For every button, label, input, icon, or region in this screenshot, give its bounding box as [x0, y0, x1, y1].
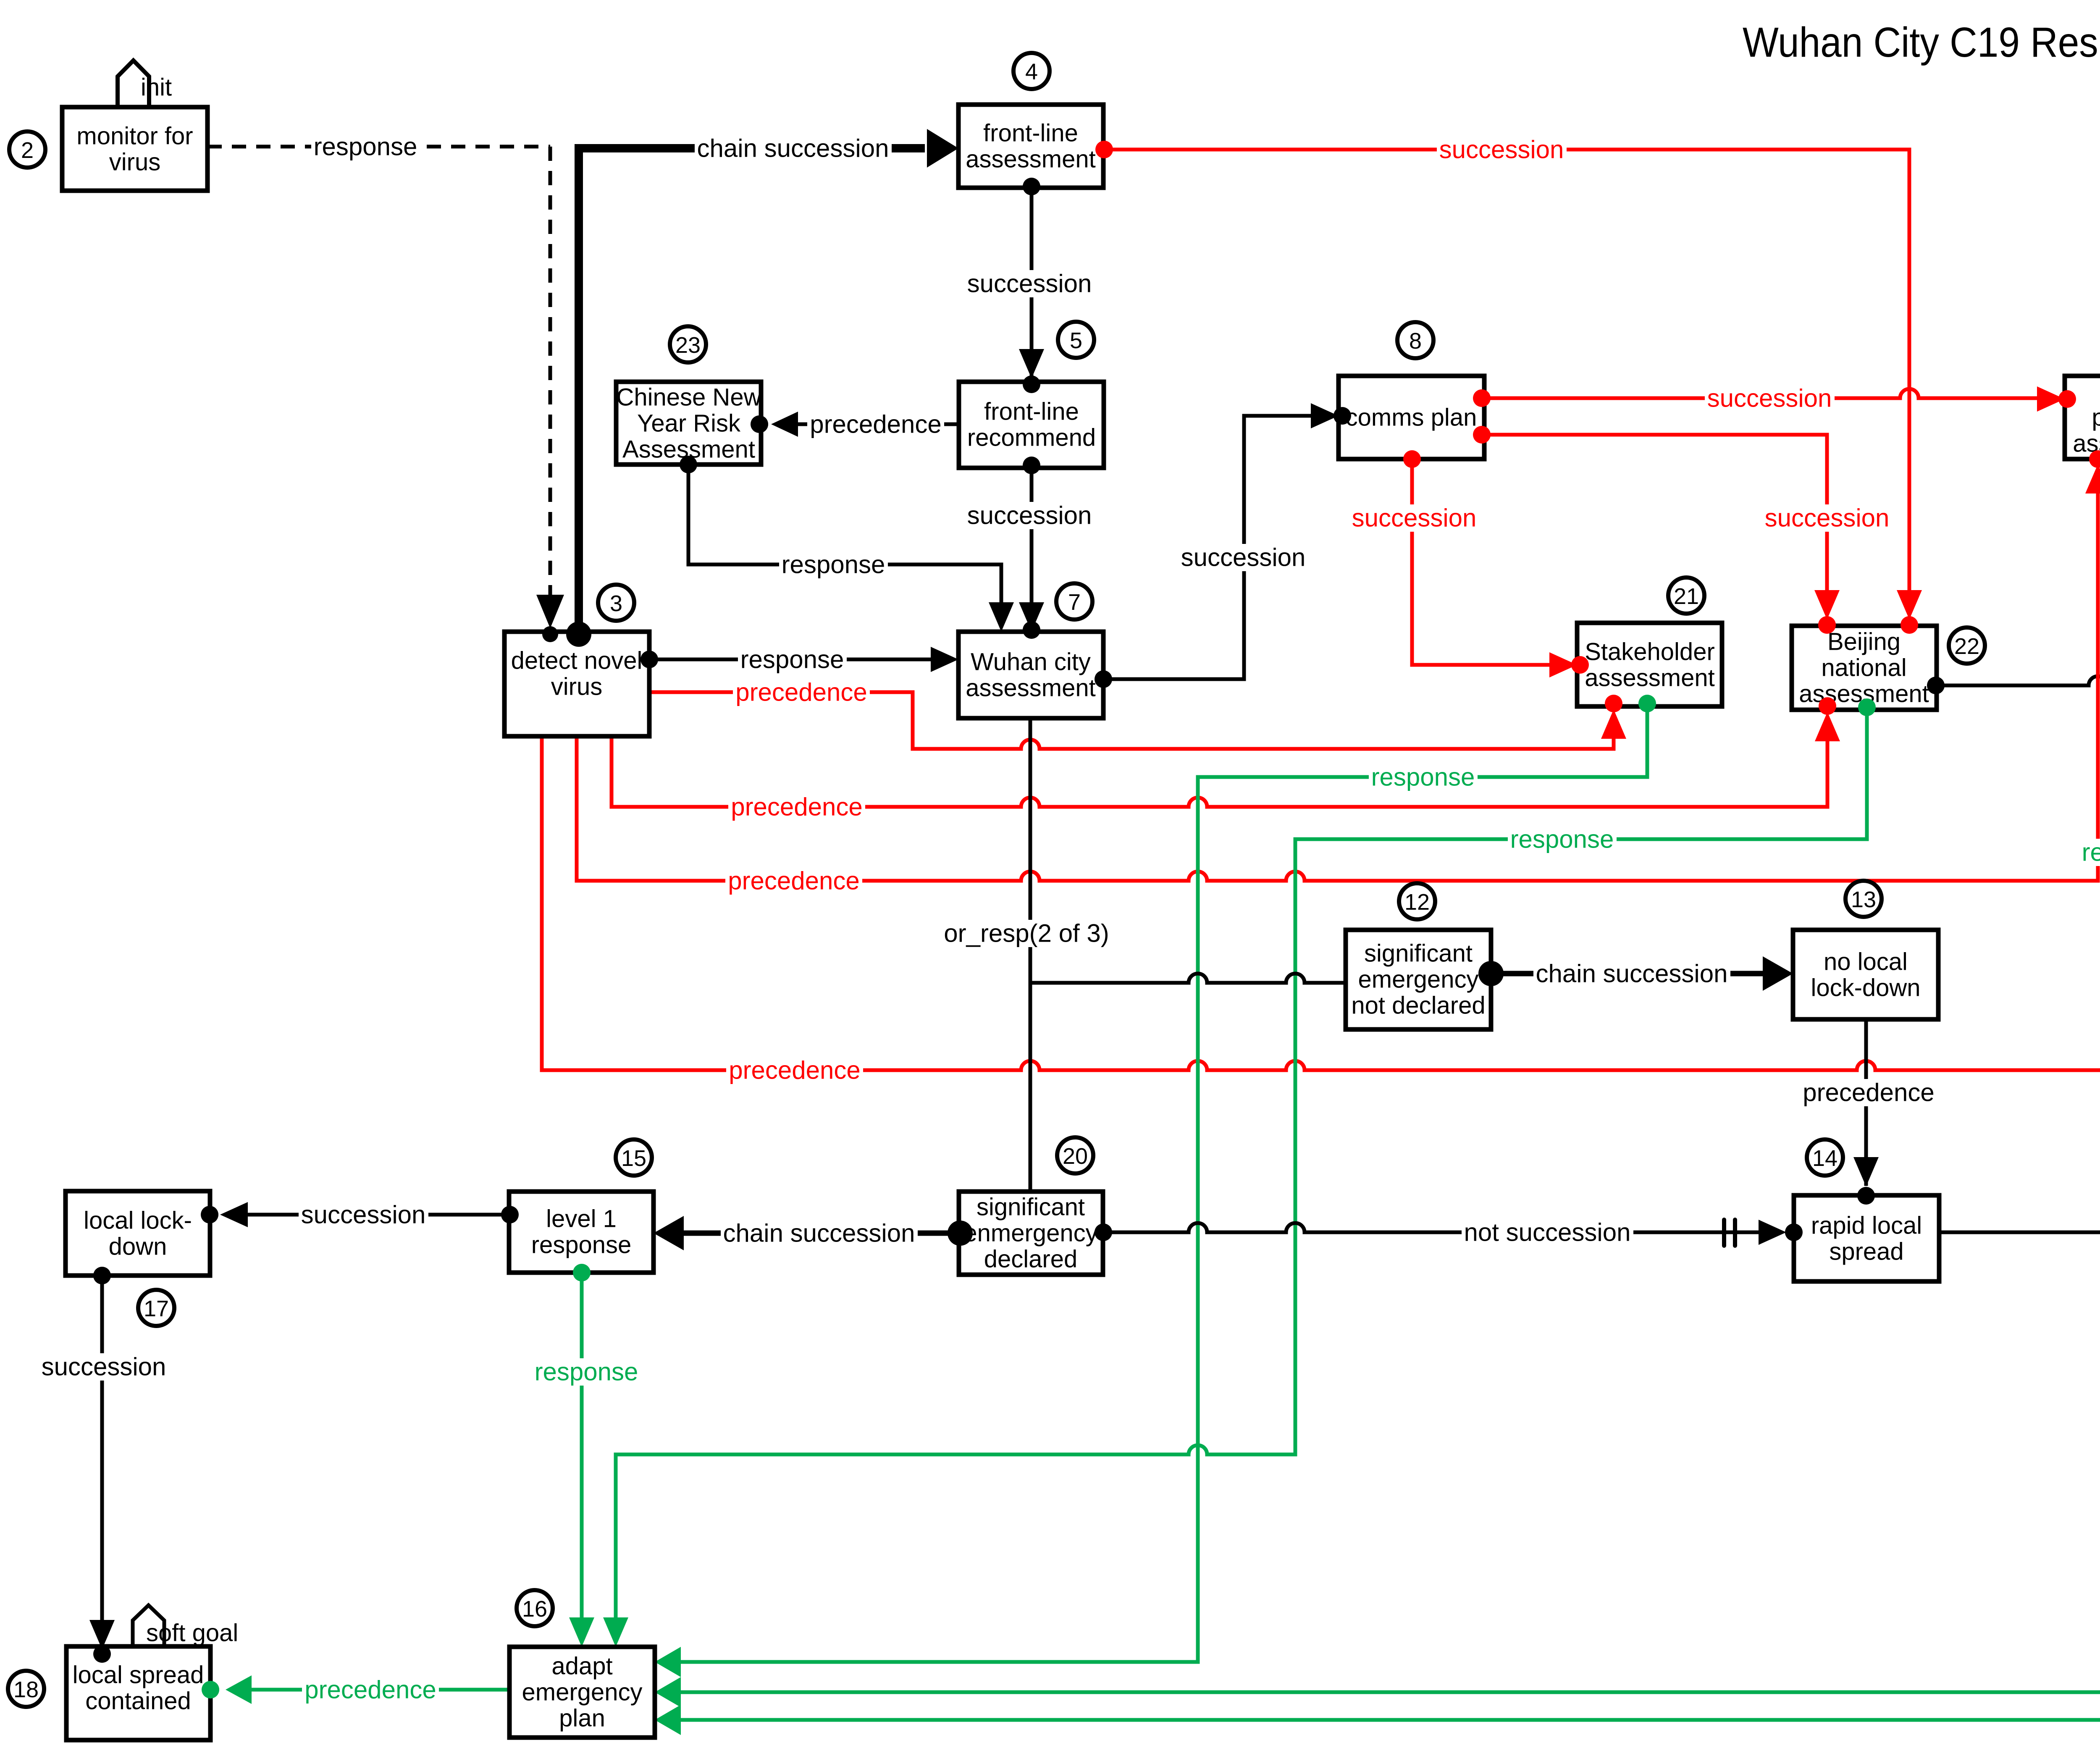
- svg-text:succession: succession: [967, 270, 1092, 298]
- node 20 significant enmergency declared: [959, 1192, 1103, 1275]
- svg-text:precedence: precedence: [735, 678, 867, 706]
- node 15 level 1 response: [509, 1192, 654, 1273]
- node 12 significant emergency not declared: [1346, 930, 1491, 1029]
- node 4 front-line assessment: [958, 105, 1103, 188]
- label or_resp(2 of 3): [941, 920, 1111, 947]
- svg-text:local spread: local spread: [73, 1662, 204, 1689]
- circled 20: [1057, 1137, 1093, 1173]
- svg-text:8: 8: [1409, 328, 1422, 354]
- label precedence red R1: [733, 679, 870, 706]
- label succession red (comms->hubei): [1705, 385, 1835, 412]
- svg-text:15: 15: [621, 1146, 646, 1171]
- svg-text:precedence: precedence: [304, 1676, 436, 1704]
- svg-text:precedence: precedence: [731, 793, 863, 821]
- svg-text:succession: succession: [42, 1353, 166, 1381]
- svg-text:16: 16: [522, 1596, 547, 1622]
- label succession (wuhan->comms plan): [1179, 544, 1308, 571]
- svg-text:Chinese New: Chinese New: [617, 384, 762, 411]
- wire chain-succession detect-novel-virus to front-line-assessment (thick): [575, 148, 583, 634]
- svg-text:front-line: front-line: [983, 120, 1078, 147]
- svg-text:rapid local: rapid local: [1811, 1212, 1922, 1239]
- svg-text:spread: spread: [1829, 1238, 1903, 1265]
- wire precedence(red) detect-novel-virus to stakeholder-assessment: [649, 690, 913, 694]
- circled 12: [1399, 883, 1435, 919]
- svg-text:3: 3: [610, 591, 622, 616]
- svg-text:init: init: [141, 74, 172, 101]
- svg-text:assessment: assessment: [1585, 664, 1714, 692]
- circled 18: [8, 1671, 44, 1707]
- wire precedence(red) detect-novel-virus to beijing-national-assessment: [610, 736, 614, 807]
- label succession (lock-down->spread contained): [39, 1353, 169, 1381]
- circled 13: [1845, 881, 1882, 917]
- svg-text:adapt: adapt: [551, 1653, 612, 1680]
- svg-text:significant: significant: [976, 1194, 1085, 1221]
- svg-text:22: 22: [1954, 634, 1979, 659]
- label response green (hubei->adapt): [2079, 839, 2100, 866]
- svg-text:response: response: [314, 133, 417, 161]
- circled 3: [598, 585, 634, 621]
- wire or_resp(2-of-3) wuhan-city-assessment to significant-emergency-declared and significant-emergency-not-declared: [1029, 718, 1032, 920]
- svg-text:7: 7: [1068, 590, 1081, 615]
- circled 23: [670, 326, 706, 362]
- svg-text:significant: significant: [1364, 940, 1473, 967]
- wire succession front-line-assessment to front-line-recommend: [1030, 186, 1034, 376]
- svg-text:23: 23: [675, 333, 701, 358]
- wire succession(red) comms-plan to stakeholder-assessment: [1410, 459, 1414, 665]
- wire response(green) beijing-national-assessment to adapt-emergency-plan: [1865, 707, 1869, 839]
- svg-text:contained: contained: [85, 1688, 191, 1715]
- svg-text:assessment: assessment: [966, 675, 1095, 702]
- svg-text:response: response: [740, 646, 844, 674]
- svg-text:or_resp(2 of 3): or_resp(2 of 3): [944, 919, 1109, 948]
- init marker house on monitor-for-virus: [118, 60, 149, 107]
- wire precedence(red) detect-novel-virus to hubei-province-assessment: [575, 736, 579, 881]
- circled 15: [616, 1139, 652, 1176]
- wire response(green) level-1-response to adapt-emergency-plan: [580, 1273, 584, 1619]
- wire response(green) stakeholder-assessment to adapt-emergency-plan: [1646, 703, 1649, 777]
- wire precedence front-line-recommend to chinese-new-year-risk-assessment: [798, 423, 959, 426]
- label response green (level1->adapt): [532, 1358, 641, 1386]
- svg-text:no local: no local: [1824, 948, 1908, 976]
- node 17 local lock-down: [66, 1191, 210, 1276]
- label chain succession (declared->level1): [721, 1220, 918, 1247]
- wire chain-succession significant-emergency-declared to level-1-response: [685, 1231, 960, 1236]
- svg-text:response: response: [1510, 825, 1614, 853]
- svg-text:Beijing: Beijing: [1827, 628, 1900, 656]
- node 5 front-line recommend: [959, 382, 1104, 468]
- circled 4: [1013, 53, 1050, 89]
- svg-text:succession: succession: [1707, 384, 1832, 412]
- svg-text:chain succession: chain succession: [697, 134, 889, 163]
- svg-text:enmergency: enmergency: [963, 1220, 1097, 1247]
- wire response chinese-new-year to wuhan-city-assessment: [687, 465, 690, 564]
- svg-text:12: 12: [1404, 890, 1430, 915]
- label succession (recommend->wuhan): [965, 502, 1095, 529]
- svg-text:chain succession: chain succession: [1536, 960, 1728, 988]
- wire response monitor-for-virus to detect-novel-virus (dashed): [207, 145, 550, 149]
- svg-text:precedence: precedence: [1803, 1079, 1935, 1107]
- label chain succession (not declared->no local lock-down): [1533, 960, 1730, 987]
- svg-text:not succession: not succession: [1464, 1218, 1631, 1247]
- label chain succession (detect->front-line assessment): [695, 135, 892, 162]
- svg-text:down: down: [109, 1233, 167, 1260]
- wire succession(red) comms-plan to hubei-province-assessment: [1484, 389, 2037, 398]
- wire not-succession significant-emergency-declared to rapid-local-spread: [1103, 1223, 1759, 1232]
- svg-text:local lock-: local lock-: [84, 1207, 192, 1234]
- svg-text:2: 2: [21, 138, 34, 163]
- svg-text:Wuhan city: Wuhan city: [971, 648, 1091, 676]
- svg-text:province: province: [2092, 404, 2100, 431]
- svg-text:soft goal: soft goal: [146, 1620, 238, 1647]
- circled 17: [138, 1290, 174, 1326]
- circled 22: [1949, 627, 1985, 664]
- wire succession local-lock-down to local-spread-contained: [100, 1276, 104, 1354]
- circled 7: [1056, 583, 1092, 619]
- label precedence red R2: [728, 793, 865, 821]
- soft goal house on local-spread-contained: [133, 1605, 164, 1646]
- node 2 monitor for virus: [62, 107, 207, 191]
- svg-text:21: 21: [1674, 584, 1699, 609]
- node 8 comms plan: [1339, 376, 1484, 459]
- svg-text:Wuhan City C19 Response “to-be: Wuhan City C19 Response “to-be” v5v.R2d.…: [1743, 19, 2100, 66]
- label succession red (comms->stakeholder): [1349, 504, 1479, 532]
- svg-text:Year Risk: Year Risk: [637, 410, 741, 437]
- svg-text:not declared: not declared: [1351, 992, 1485, 1019]
- node 23 Chinese New Year Risk Assessment: [616, 382, 761, 465]
- wire response detect-novel-virus to wuhan-city-assessment: [649, 658, 931, 661]
- node 3 detect novel virus: [504, 632, 649, 736]
- svg-text:plan: plan: [559, 1705, 605, 1732]
- svg-text:virus: virus: [109, 149, 160, 176]
- circled 21: [1668, 577, 1704, 614]
- not-succession negation marks: [1722, 1220, 1726, 1246]
- label succession (front-line assessment->recommend): [965, 270, 1095, 297]
- svg-text:succession: succession: [1352, 504, 1477, 532]
- svg-text:emergency: emergency: [522, 1679, 643, 1706]
- circled 8: [1397, 322, 1433, 358]
- svg-text:14: 14: [1812, 1146, 1837, 1171]
- svg-text:Stakeholder: Stakeholder: [1585, 638, 1715, 666]
- svg-text:recommend: recommend: [967, 424, 1096, 451]
- svg-text:20: 20: [1063, 1144, 1088, 1169]
- svg-text:succession: succession: [967, 501, 1092, 530]
- node 14 rapid local spread: [1794, 1195, 1939, 1281]
- wire succession(red) front-line-assessment to beijing-national-assessment: [1103, 148, 1909, 152]
- label precedence red R4: [726, 1057, 863, 1084]
- svg-text:detect novel: detect novel: [511, 647, 643, 675]
- svg-text:succession: succession: [1181, 543, 1306, 572]
- wire precedence(green) adapt-emergency-plan to local-spread-contained: [252, 1688, 509, 1692]
- svg-text:precedence: precedence: [729, 1056, 861, 1084]
- svg-text:virus: virus: [551, 673, 602, 701]
- wire precedence(red) detect-novel-virus to who-assessment: [540, 736, 544, 1070]
- svg-text:succession: succession: [1765, 504, 1890, 532]
- wire precedence rapid-local-spread to asymptomatic-carriers-leave-wuhan: [1939, 1223, 2100, 1232]
- wire precedence no-local-lock-down to rapid-local-spread: [1864, 1019, 1868, 1184]
- label not succession: [1462, 1219, 1633, 1246]
- label response (CNY->wuhan): [779, 551, 888, 578]
- label response green (stakeholder->adapt): [1369, 764, 1478, 791]
- svg-text:response: response: [782, 551, 885, 579]
- svg-text:front-line: front-line: [984, 398, 1079, 425]
- node 16 adapt emergency plan: [509, 1647, 655, 1738]
- svg-text:declared: declared: [984, 1246, 1077, 1273]
- circled 16: [517, 1590, 553, 1626]
- circled 2: [9, 131, 45, 168]
- svg-text:response: response: [1371, 763, 1475, 791]
- label succession red (comms->beijing): [1762, 504, 1892, 532]
- svg-text:assessment: assessment: [966, 146, 1095, 173]
- label succession red (front-line assessment->beijing): [1437, 136, 1567, 163]
- svg-text:succession: succession: [301, 1201, 426, 1229]
- svg-text:lock-down: lock-down: [1811, 974, 1920, 1002]
- wire succession front-line-recommend to wuhan-city-assessment: [1030, 465, 1034, 629]
- node 22 Beijing national assessment: [1792, 626, 1937, 710]
- svg-text:national: national: [1821, 654, 1906, 682]
- label precedence (recommend->CNY): [807, 411, 944, 438]
- wire succession(red) comms-plan to beijing-national-assessment: [1484, 433, 1827, 437]
- svg-text:4: 4: [1025, 59, 1038, 84]
- wire succession level-1-response to local-lock-down: [248, 1213, 510, 1217]
- circled 5: [1058, 322, 1094, 358]
- node 7 Wuhan city assessment: [958, 632, 1103, 718]
- label response (monitor->detect): [311, 133, 420, 160]
- svg-text:chain succession: chain succession: [723, 1219, 915, 1247]
- node 9 Hubei province assessment: [2065, 376, 2100, 459]
- svg-text:response: response: [535, 1358, 638, 1386]
- circled 14: [1807, 1139, 1843, 1176]
- svg-text:monitor for: monitor for: [76, 123, 193, 150]
- svg-text:comms plan: comms plan: [1346, 404, 1477, 431]
- label precedence green (adapt->local spread contained): [302, 1676, 439, 1704]
- label precedence (no local lock-down->rapid local spread): [1800, 1079, 1937, 1106]
- label succession (level1->local lock-down): [299, 1201, 428, 1228]
- svg-text:level 1: level 1: [546, 1205, 617, 1233]
- wire chain-succession significant-emergency-not-declared to no-local-lock-down: [1491, 971, 1761, 976]
- svg-text:response: response: [531, 1231, 632, 1259]
- svg-text:17: 17: [144, 1296, 169, 1321]
- svg-text:emergency: emergency: [1358, 966, 1479, 993]
- label precedence red R3: [725, 867, 862, 895]
- node 18 local spread contained: [66, 1646, 210, 1740]
- wire succession wuhan-city-assessment to comms-plan: [1103, 677, 1244, 681]
- svg-text:18: 18: [13, 1677, 39, 1702]
- svg-text:13: 13: [1851, 887, 1876, 912]
- svg-text:response: response: [2082, 838, 2100, 866]
- label response green (beijing->adapt): [1508, 826, 1617, 853]
- node 21 Stakeholder assessment: [1577, 623, 1722, 706]
- label response (detect->wuhan): [738, 646, 847, 673]
- svg-text:succession: succession: [1439, 136, 1564, 164]
- node 13 no local lock-down: [1793, 930, 1938, 1019]
- svg-text:precedence: precedence: [728, 867, 860, 895]
- svg-text:5: 5: [1070, 328, 1082, 353]
- svg-text:precedence: precedence: [810, 410, 942, 438]
- wire response beijing-national-assessment to who-assessment: [1937, 676, 2100, 685]
